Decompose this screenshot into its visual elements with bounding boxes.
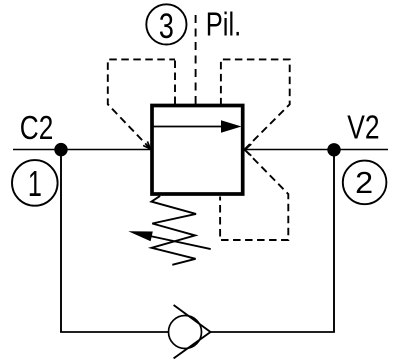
wire right drop line bbox=[333, 150, 335, 333]
check valve CV1 ball bbox=[169, 316, 202, 349]
transition box top-left (dashed) bbox=[108, 59, 175, 148]
svg-text:1: 1 bbox=[28, 163, 42, 204]
valve V1 internal flow arrow bbox=[154, 120, 242, 132]
node C2 junction dot bbox=[54, 143, 67, 156]
wire bottom line left segment bbox=[60, 331, 168, 333]
arrowhead on top-left diagonal bbox=[143, 141, 150, 148]
adjustment arrow across spring bbox=[128, 231, 210, 249]
arrowhead at V2 port into valve bbox=[245, 144, 252, 156]
pilot dashed line (Pil.) bbox=[195, 15, 197, 104]
svg-text:V2: V2 bbox=[347, 109, 379, 146]
wire left drop line bbox=[60, 150, 62, 333]
transition box bottom-right (dashed) bbox=[220, 150, 288, 240]
port circle 2 bbox=[343, 161, 387, 205]
wire bottom line right segment bbox=[211, 331, 335, 333]
check valve CV1 seat bbox=[174, 305, 211, 358]
svg-text:2: 2 bbox=[355, 165, 373, 200]
svg-text:3: 3 bbox=[159, 6, 174, 46]
transition box top-left right edge (dashed) bbox=[174, 59, 176, 104]
spring S1 bbox=[151, 196, 196, 265]
wire C2 port line bbox=[13, 149, 151, 151]
node V2 junction dot bbox=[327, 143, 340, 156]
port circle 1 bbox=[12, 160, 58, 206]
wire V2 port line bbox=[245, 149, 389, 151]
transition box top-right (dashed) bbox=[221, 59, 290, 149]
port circle 3 bbox=[146, 4, 186, 46]
svg-text:Pil.: Pil. bbox=[206, 5, 241, 42]
valve body V1 main square bbox=[152, 106, 243, 195]
svg-text:C2: C2 bbox=[20, 109, 54, 146]
